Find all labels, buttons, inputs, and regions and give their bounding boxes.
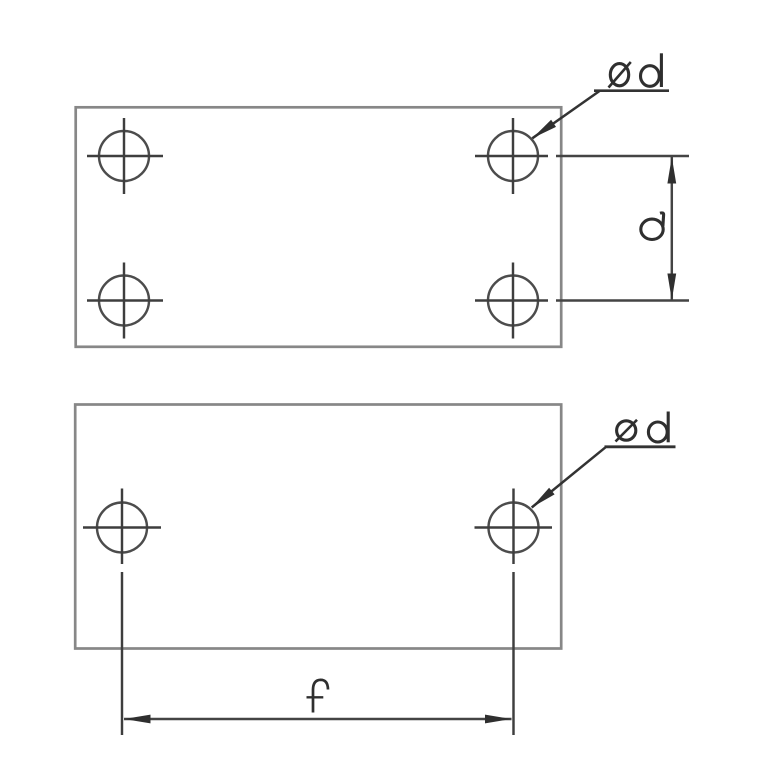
hole H1 centerline horizontal [87,155,163,157]
arrowhead f right [485,715,512,724]
hole H5 centerline vertical (upper) [121,489,123,565]
hole H5 extension line down to f dimension [121,572,123,735]
extension line top (dimension a) [556,155,689,157]
label od (top): d bowl [641,66,660,87]
label od (top): slash [609,62,631,88]
hole H2 centerline horizontal [475,155,548,157]
hole H6 right: circle [489,503,539,553]
leader line for od (bottom) diagonal [532,447,606,507]
leader arrowhead (top) [532,120,556,139]
leader underline under od (top) [594,89,669,92]
label f: crossbar [307,696,324,698]
hole H2 centerline vertical [512,118,514,194]
hole H6 centerline horizontal [475,526,553,528]
plate 1 outline (top rectangle) [76,107,562,346]
hole H1 top-left: circle [99,131,149,181]
label od (bottom): o-slash ellipse [617,421,636,440]
label od (top): o-slash ellipse [610,64,628,86]
hole H3 centerline horizontal [87,299,163,301]
extension line bottom (dimension a) [556,299,689,301]
hole H5 left: circle [97,503,147,553]
hole H2 top-right: circle [488,131,538,181]
hole H4 bottom-right: circle [488,276,538,326]
dimension line a (vertical) [671,157,673,301]
label od (bottom): d stem [667,412,670,443]
label a stem [660,213,664,226]
hole H1 centerline vertical [123,118,125,194]
arrowhead a top [667,157,676,184]
leader line for od (top) diagonal [532,91,599,138]
hole H6 extension line down to f dimension [512,572,514,735]
label od (bottom): d bowl [648,422,667,442]
hole H3 centerline vertical [123,263,125,339]
hole H6 centerline vertical (upper) [512,489,514,565]
label od (top): d stem [660,53,663,87]
plate 2 outline (bottom rectangle) [75,405,561,649]
leader underline under od (bottom) [605,445,676,448]
hole H3 bottom-left: circle [99,276,149,326]
dimension line f (horizontal) [124,718,512,720]
label a (rotated) : bowl [641,219,663,239]
hole H4 centerline vertical [512,263,514,339]
arrowhead f left [124,715,151,724]
leader arrowhead (bottom) [532,488,555,508]
label od (bottom): slash [616,420,638,442]
arrowhead a bottom [667,274,676,301]
label f: stem and hook [313,680,328,713]
hole H4 centerline horizontal [475,299,548,301]
hole H5 centerline horizontal [83,526,161,528]
